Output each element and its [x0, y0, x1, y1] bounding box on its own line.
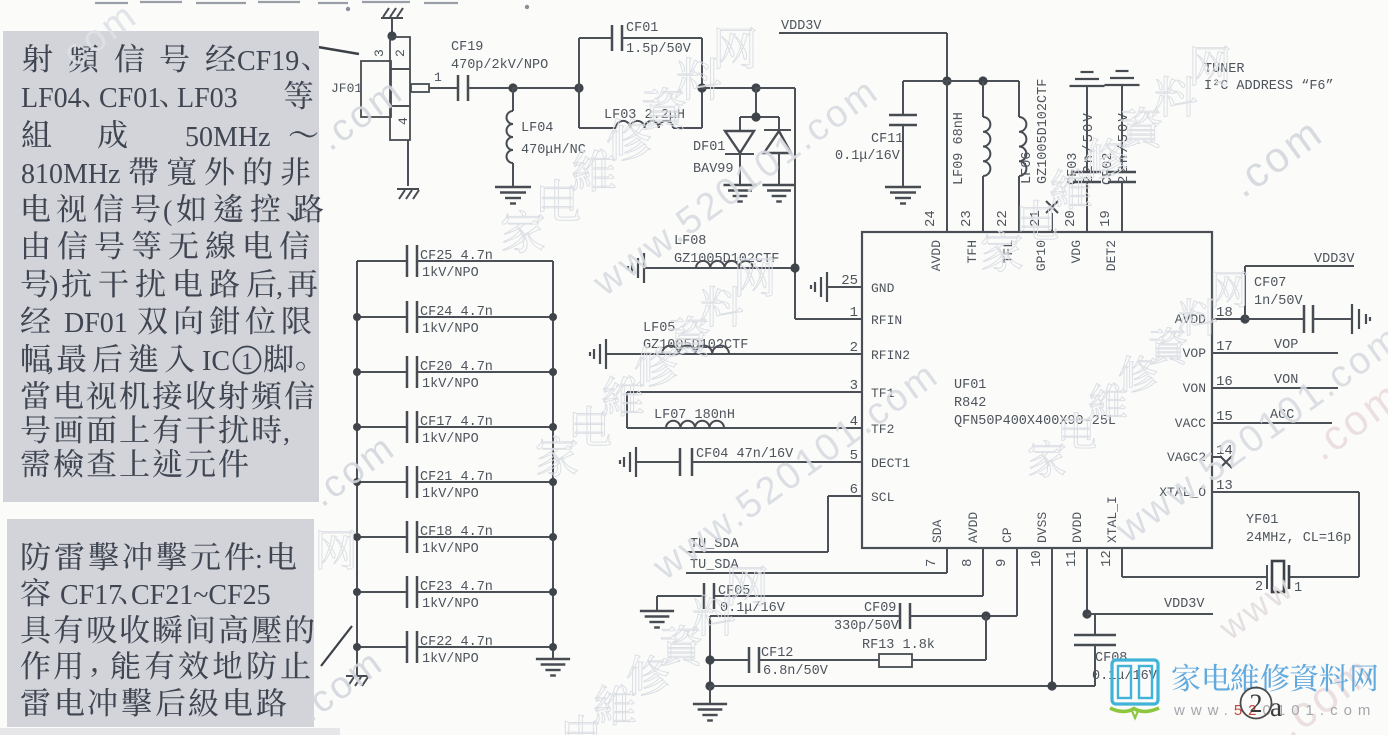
node — [549, 588, 557, 596]
ground — [381, 8, 403, 18]
node — [574, 83, 583, 92]
svg-text:DF01: DF01 — [693, 140, 725, 155]
svg-text:SDA: SDA — [930, 519, 945, 543]
capacitor CF11 — [835, 81, 917, 186]
svg-text:4: 4 — [396, 117, 411, 125]
svg-text:23: 23 — [959, 210, 975, 227]
wire — [903, 80, 1019, 82]
ground — [536, 659, 570, 676]
svg-text:VACC: VACC — [1175, 416, 1206, 431]
svg-text:CF21 4.7n: CF21 4.7n — [420, 470, 493, 485]
logo url — [1173, 702, 1376, 719]
wire pin10 DVSS — [1051, 548, 1053, 686]
wire left rail — [356, 261, 358, 675]
svg-text:RFIN2: RFIN2 — [871, 348, 910, 363]
svg-text:CF22 4.7n: CF22 4.7n — [420, 635, 493, 650]
inductor LF05 — [607, 321, 862, 354]
wire pin18 — [1212, 318, 1245, 320]
wire SDA — [686, 548, 947, 573]
net VDD3V — [779, 19, 947, 34]
wire — [709, 686, 711, 703]
logo book icon — [1110, 660, 1159, 718]
node — [353, 533, 361, 541]
svg-text:1kV/NPO: 1kV/NPO — [422, 266, 479, 281]
node — [1082, 609, 1091, 618]
node — [697, 83, 706, 92]
note block 1 text — [21, 44, 323, 478]
svg-text:7: 7 — [924, 559, 940, 567]
svg-text:9: 9 — [994, 559, 1010, 567]
node — [353, 643, 361, 651]
svg-text:,: , — [276, 271, 283, 302]
pin 14 no-connect — [1212, 456, 1232, 468]
svg-text:RF13 1.8k: RF13 1.8k — [862, 638, 935, 653]
wire SCL — [686, 496, 862, 552]
capacitor CF20 — [357, 356, 553, 392]
svg-text:2: 2 — [393, 49, 408, 57]
inductor LF08 — [645, 234, 795, 268]
svg-text:a: a — [1270, 692, 1282, 722]
svg-text:20: 20 — [1063, 210, 1079, 227]
svg-text:CP: CP — [1000, 527, 1015, 543]
ground — [346, 676, 368, 686]
svg-text:24MHz, CL=16p: 24MHz, CL=16p — [1246, 531, 1351, 546]
svg-text:50MHz: 50MHz — [185, 122, 271, 153]
diode DF01 — [693, 117, 791, 184]
svg-text:6: 6 — [850, 482, 858, 498]
inductor LF03 — [579, 38, 702, 128]
svg-text:SCL: SCL — [871, 490, 894, 505]
svg-text:3: 3 — [372, 49, 387, 57]
inductor LF04 — [507, 88, 586, 186]
wire — [756, 87, 795, 89]
svg-text:CF01: CF01 — [626, 21, 658, 36]
node RF input junction — [387, 31, 396, 40]
ground — [495, 187, 531, 204]
wire XTAL_O — [1212, 492, 1359, 577]
wire — [709, 616, 711, 686]
svg-text:CF24 4.7n: CF24 4.7n — [420, 305, 493, 320]
svg-text:1: 1 — [850, 305, 858, 321]
node — [353, 588, 361, 596]
node — [353, 423, 361, 431]
svg-text:470μH/NC: 470μH/NC — [521, 143, 586, 158]
node — [942, 76, 951, 85]
ground — [1352, 304, 1370, 334]
svg-text:DVDD: DVDD — [1070, 512, 1085, 543]
node — [705, 655, 714, 664]
wire — [95, 2, 458, 3]
capacitor CF19 — [451, 40, 548, 101]
wire — [391, 18, 393, 38]
capacitor CF12 — [710, 646, 879, 679]
svg-text:CF19: CF19 — [451, 40, 483, 55]
capacitor CF05 — [657, 583, 786, 616]
pin numbers right side — [1159, 305, 1233, 500]
ground — [1070, 72, 1105, 86]
node — [549, 368, 557, 376]
svg-text:QFN50P400X400X90-25L: QFN50P400X400X90-25L — [954, 414, 1116, 429]
svg-text:CF18 4.7n: CF18 4.7n — [420, 525, 493, 540]
capacitor CF07 — [1245, 276, 1352, 333]
svg-text:1kV/NPO: 1kV/NPO — [422, 652, 479, 667]
capacitor CF24 — [357, 301, 553, 337]
svg-text:10: 10 — [1029, 550, 1045, 567]
op-amp U1 : tuner IC UF01 body — [862, 232, 1212, 548]
capacitor CF18 — [357, 521, 553, 557]
svg-text:8: 8 — [960, 559, 976, 567]
node — [549, 313, 557, 321]
svg-text:VON: VON — [1183, 381, 1206, 396]
capacitor CF04 — [637, 447, 862, 476]
node — [751, 83, 760, 92]
ground — [762, 185, 795, 202]
inductor LF07 — [627, 392, 862, 428]
svg-text:VDD3V: VDD3V — [1164, 597, 1205, 612]
ground — [640, 611, 674, 628]
inductor LF09 — [952, 81, 990, 232]
node — [1047, 681, 1056, 690]
wire pin25 — [827, 286, 862, 288]
wire — [429, 87, 458, 89]
svg-text:VOP: VOP — [1274, 338, 1298, 353]
wire AGC — [1212, 408, 1332, 423]
node — [790, 263, 799, 272]
ground — [1105, 71, 1140, 85]
wire — [702, 87, 756, 89]
node — [353, 368, 361, 376]
svg-text:0.1μ/16V: 0.1μ/16V — [835, 149, 901, 164]
wire — [407, 140, 409, 186]
svg-text:,: , — [47, 346, 54, 377]
svg-text:LF06: LF06 — [1020, 152, 1035, 184]
svg-text:2: 2 — [850, 340, 858, 356]
svg-text:CF23 4.7n: CF23 4.7n — [420, 580, 493, 595]
wire callout to capacitor bank — [321, 626, 352, 666]
ground — [397, 189, 419, 199]
wire XTAL_I — [1122, 548, 1267, 577]
svg-text:24: 24 — [923, 210, 939, 227]
svg-text:1kV/NPO: 1kV/NPO — [422, 432, 479, 447]
capacitor CF03 — [1066, 86, 1101, 232]
note block 2 background — [7, 519, 314, 727]
svg-text:6.8n/50V: 6.8n/50V — [763, 664, 829, 679]
svg-text:CF01: CF01 — [99, 83, 161, 114]
svg-text:25: 25 — [841, 273, 858, 289]
svg-text:): ) — [49, 271, 58, 302]
svg-text:11: 11 — [1064, 550, 1080, 567]
wire pin24 — [946, 81, 948, 232]
svg-text:DVSS: DVSS — [1035, 512, 1050, 543]
ground — [885, 187, 921, 204]
svg-text:IC: IC — [202, 346, 230, 377]
svg-text:CF11: CF11 — [871, 132, 903, 147]
capacitor CF02 — [1101, 85, 1136, 232]
wire — [985, 616, 987, 660]
svg-text:CF21~CF25: CF21~CF25 — [131, 580, 271, 611]
svg-text:1kV/NPO: 1kV/NPO — [422, 322, 479, 337]
node — [353, 478, 361, 486]
node — [978, 76, 987, 85]
svg-text:VDD3V: VDD3V — [781, 19, 822, 34]
node — [705, 681, 714, 690]
svg-text:(: ( — [163, 196, 172, 227]
pin numbers left side — [841, 273, 910, 505]
ground — [620, 447, 636, 477]
svg-text:RFIN: RFIN — [871, 313, 902, 328]
capacitor CF01 — [579, 21, 702, 128]
pin numbers bottom side — [924, 496, 1120, 567]
inductor LF06 — [1019, 79, 1051, 232]
svg-text:1.5p/50V: 1.5p/50V — [626, 42, 692, 57]
node — [549, 533, 557, 541]
svg-text:CF25 4.7n: CF25 4.7n — [420, 249, 493, 264]
svg-text:2: 2 — [1250, 689, 1263, 718]
svg-text:UF01: UF01 — [954, 378, 986, 393]
capacitor CF22 — [357, 631, 553, 667]
node — [981, 611, 990, 620]
note block 1 background — [3, 31, 319, 502]
svg-text:I²C ADDRESS “F6”: I²C ADDRESS “F6” — [1204, 79, 1334, 94]
pin numbers top side — [923, 210, 1119, 271]
capacitor CF21 — [357, 466, 553, 502]
svg-text:TFH: TFH — [965, 240, 980, 263]
svg-text:330p/50V: 330p/50V — [834, 619, 900, 634]
connector JF01 — [331, 37, 442, 140]
svg-text:VOP: VOP — [1183, 346, 1207, 361]
wire — [946, 33, 948, 81]
svg-text:DF01: DF01 — [64, 308, 128, 339]
wire pin11 DVDD — [1086, 548, 1088, 614]
svg-text:1kV/NPO: 1kV/NPO — [422, 487, 479, 502]
capacitor CF25 — [357, 245, 553, 281]
wire pin8 — [982, 548, 984, 596]
svg-text:1kV/NPO: 1kV/NPO — [422, 377, 479, 392]
wire pin9 — [1016, 548, 1018, 616]
svg-text:R842: R842 — [954, 396, 986, 411]
svg-text:DECT1: DECT1 — [871, 456, 910, 471]
capacitor CF17 — [357, 411, 553, 447]
net VDD3V — [1087, 597, 1213, 614]
svg-text:AVDD: AVDD — [929, 240, 944, 271]
svg-text:1n/50V: 1n/50V — [1254, 294, 1304, 309]
node — [751, 112, 760, 121]
svg-text:810MHz: 810MHz — [21, 159, 121, 190]
node — [508, 83, 517, 92]
svg-text:CF17: CF17 — [60, 580, 122, 611]
label UF01 — [954, 378, 1116, 429]
svg-text:22n/50V: 22n/50V — [1081, 111, 1097, 184]
net VDD3V — [1245, 252, 1355, 319]
wire — [755, 88, 757, 117]
svg-text:22: 22 — [995, 210, 1011, 227]
node — [1240, 314, 1249, 323]
svg-text:1: 1 — [434, 70, 442, 85]
svg-text:CF07: CF07 — [1254, 276, 1286, 291]
node — [549, 478, 557, 486]
svg-text:1kV/NPO: 1kV/NPO — [422, 597, 479, 612]
node — [353, 313, 361, 321]
svg-text::: : — [255, 544, 263, 575]
svg-text:CF20 4.7n: CF20 4.7n — [420, 360, 493, 375]
wire RFIN — [795, 318, 862, 320]
wire ground rail — [710, 685, 1095, 687]
svg-text:1kV/NPO: 1kV/NPO — [422, 542, 479, 557]
wire — [656, 596, 658, 610]
figure label 2a — [1241, 688, 1283, 723]
wire VOP — [1212, 338, 1338, 353]
note block 2 text — [21, 542, 314, 717]
svg-text:CF17 4.7n: CF17 4.7n — [420, 415, 493, 430]
svg-text:19: 19 — [1098, 210, 1114, 227]
crystal YF01 — [1246, 513, 1351, 596]
svg-text:YF01: YF01 — [1246, 513, 1278, 528]
capacitor CF08 — [1074, 614, 1158, 686]
node — [549, 423, 557, 431]
ground — [811, 272, 827, 302]
svg-text:1: 1 — [241, 349, 253, 374]
svg-text:LF09 68nH: LF09 68nH — [952, 112, 967, 185]
wire VON — [1212, 373, 1338, 388]
capacitor CF23 — [357, 576, 553, 612]
svg-text:DET2: DET2 — [1104, 240, 1119, 271]
label TUNER — [1204, 62, 1334, 94]
svg-text:GP10: GP10 — [1034, 240, 1049, 271]
ground — [723, 185, 756, 202]
ground — [693, 704, 727, 721]
wire — [513, 87, 579, 89]
svg-text:LF03: LF03 — [177, 83, 238, 114]
svg-text:GZ1005D102CTF: GZ1005D102CTF — [1036, 79, 1051, 184]
wire right rail — [552, 261, 554, 658]
svg-text:,: , — [283, 417, 290, 448]
logo text — [1172, 664, 1377, 692]
svg-text:VDG: VDG — [1069, 240, 1084, 263]
pin 21 no-connect — [1046, 201, 1058, 232]
svg-text:LF04: LF04 — [21, 83, 82, 114]
svg-text:CF12: CF12 — [761, 646, 793, 661]
svg-text:12: 12 — [1099, 550, 1115, 567]
ground — [590, 339, 606, 369]
svg-text:CF19: CF19 — [237, 46, 299, 77]
wire — [468, 87, 513, 89]
svg-text:LF07 180nH: LF07 180nH — [654, 408, 735, 423]
svg-text:470p/2kV/NPO: 470p/2kV/NPO — [451, 58, 548, 73]
svg-text:GND: GND — [871, 281, 895, 296]
capacitor CF09 — [710, 601, 910, 634]
svg-text:VDD3V: VDD3V — [1314, 252, 1355, 267]
svg-text:LF04: LF04 — [521, 121, 553, 136]
svg-text:AVDD: AVDD — [966, 512, 981, 543]
svg-text:CF09: CF09 — [864, 601, 896, 616]
resistor RF13 — [862, 638, 986, 667]
ground — [628, 253, 644, 283]
svg-text:0.1μ/16V: 0.1μ/16V — [1092, 669, 1158, 684]
svg-text:3: 3 — [850, 378, 858, 394]
node — [549, 643, 557, 651]
wire callout to JF01 — [318, 47, 359, 54]
